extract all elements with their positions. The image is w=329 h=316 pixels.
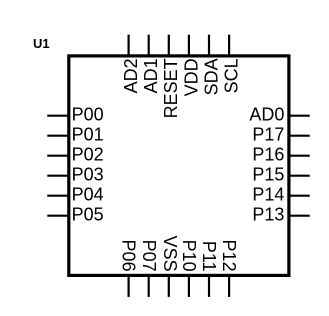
pin P10 wire <box>188 275 190 297</box>
svg-text:P12: P12 <box>219 240 239 272</box>
svg-text:RESET: RESET <box>161 58 181 118</box>
pin SDA wire <box>208 35 210 56</box>
svg-text:P01: P01 <box>72 125 104 145</box>
svg-text:SCL: SCL <box>222 58 242 93</box>
pin P17 wire <box>289 135 310 137</box>
pin P15 wire <box>289 175 310 177</box>
pin AD0 wire <box>289 115 310 117</box>
pin P13 wire <box>289 215 310 217</box>
svg-text:P07: P07 <box>139 240 159 272</box>
svg-text:P04: P04 <box>72 185 104 205</box>
svg-text:VDD: VDD <box>181 58 201 96</box>
IC U1 body rectangle <box>69 56 289 276</box>
svg-text:P15: P15 <box>252 165 284 185</box>
svg-text:P03: P03 <box>72 165 104 185</box>
pin VSS wire <box>168 275 170 297</box>
svg-text:P11: P11 <box>199 241 219 272</box>
pin P04 wire <box>47 195 68 197</box>
svg-text:AD2: AD2 <box>121 58 141 93</box>
svg-text:P16: P16 <box>252 145 284 165</box>
pin P01 wire <box>47 135 68 137</box>
pin P03 wire <box>47 175 68 177</box>
pin SCL wire <box>228 35 230 56</box>
svg-text:P14: P14 <box>252 185 284 205</box>
svg-text:U1: U1 <box>33 36 50 51</box>
svg-text:P17: P17 <box>252 125 284 145</box>
pin P16 wire <box>289 155 310 157</box>
pin AD2 wire <box>128 35 130 56</box>
svg-text:SDA: SDA <box>201 58 221 95</box>
svg-text:P02: P02 <box>72 145 104 165</box>
svg-text:P10: P10 <box>179 240 199 272</box>
pin P02 wire <box>47 155 68 157</box>
pin P07 wire <box>148 275 150 297</box>
pin P00 wire <box>47 115 68 117</box>
pin P11 wire <box>208 275 210 297</box>
pin P12 wire <box>228 275 230 297</box>
svg-text:VSS: VSS <box>160 236 180 272</box>
pin RESET wire <box>168 35 170 56</box>
pin AD1 wire <box>148 35 150 56</box>
pin P14 wire <box>289 195 310 197</box>
svg-text:P13: P13 <box>252 205 284 225</box>
pin P05 wire <box>47 215 68 217</box>
pin P06 wire <box>128 275 130 297</box>
svg-text:P06: P06 <box>119 240 139 272</box>
svg-text:P00: P00 <box>72 105 104 125</box>
svg-text:AD0: AD0 <box>249 105 284 125</box>
svg-text:AD1: AD1 <box>141 58 161 93</box>
svg-text:P05: P05 <box>72 205 104 225</box>
pin VDD wire <box>188 35 190 56</box>
